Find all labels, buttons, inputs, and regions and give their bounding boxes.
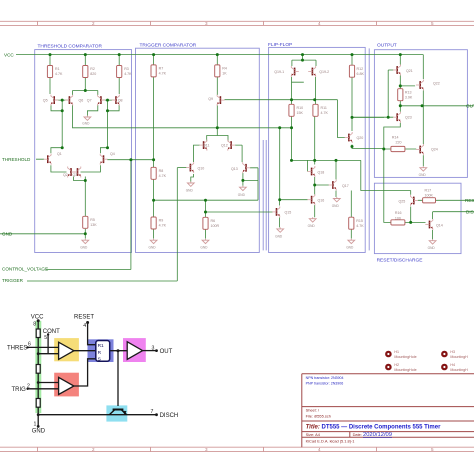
svg-text:OUTPUT: OUTPUT [377,43,397,49]
svg-text:5: 5 [44,335,47,341]
svg-text:Q11: Q11 [203,144,210,148]
svg-text:GND: GND [238,193,246,197]
svg-text:100: 100 [395,217,401,221]
svg-text:4: 4 [318,447,321,452]
svg-text:1: 1 [34,422,37,428]
svg-text:R3: R3 [124,67,129,71]
svg-text:2: 2 [92,21,95,26]
svg-text:220: 220 [396,141,402,145]
svg-text:4.7K: 4.7K [159,72,167,76]
svg-text:KiCad E.D.A. kicad (5.1.8)-1: KiCad E.D.A. kicad (5.1.8)-1 [306,439,355,444]
svg-text:Q14: Q14 [436,223,443,227]
svg-text:DIS: DIS [466,210,474,215]
svg-text:Q23: Q23 [405,115,412,119]
svg-text:4.7K: 4.7K [321,111,329,115]
svg-text:4.7K: 4.7K [124,72,132,76]
svg-text:3: 3 [152,346,155,352]
svg-text:Q7: Q7 [87,98,92,102]
svg-text:GND: GND [332,204,340,208]
svg-text:GND: GND [428,246,436,250]
svg-text:R16: R16 [395,211,402,215]
svg-text:3.9K: 3.9K [405,95,413,99]
svg-text:Q13: Q13 [231,167,238,171]
svg-text:4.7K: 4.7K [55,72,63,76]
svg-text:2: 2 [27,383,30,389]
svg-text:MountingH: MountingH [450,355,468,359]
svg-text:Q9: Q9 [208,97,213,101]
svg-text:7: 7 [151,409,154,415]
svg-text:4: 4 [83,323,86,329]
svg-text:R11: R11 [321,106,327,110]
svg-text:R17: R17 [425,188,432,192]
svg-text:VCC: VCC [4,52,14,57]
svg-text:THRESHOLD COMPARATOR: THRESHOLD COMPARATOR [38,44,103,50]
svg-text:Q24: Q24 [431,148,438,152]
svg-text:GND: GND [275,234,283,238]
svg-text:Q16: Q16 [318,199,325,203]
svg-text:GND: GND [32,429,46,435]
svg-text:THRES: THRES [7,346,27,352]
svg-text:OUT: OUT [160,349,173,355]
svg-text:15K: 15K [297,111,304,115]
svg-text:100R: 100R [211,224,220,228]
svg-text:NPN transistor: 2N3904: NPN transistor: 2N3904 [306,376,344,380]
svg-text:Q1: Q1 [57,152,62,156]
svg-text:R8: R8 [159,169,164,173]
svg-text:PNP transistor: 2N3906: PNP transistor: 2N3906 [306,381,344,385]
svg-text:6: 6 [28,342,31,348]
svg-text:GND: GND [308,224,316,228]
svg-text:GND: GND [200,246,208,250]
svg-text:Q2: Q2 [63,173,68,177]
svg-text:Q19-1: Q19-1 [274,70,284,74]
svg-text:R6: R6 [211,219,216,223]
svg-text:8: 8 [33,322,36,328]
svg-text:1K: 1K [222,72,227,76]
svg-text:TRIG: TRIG [12,387,27,393]
svg-text:TRIGGER: TRIGGER [2,278,24,283]
svg-text:Q12: Q12 [221,144,228,148]
svg-text:Q22: Q22 [433,82,440,86]
svg-text:TRIGGER COMPARATOR: TRIGGER COMPARATOR [140,43,197,49]
svg-text:RESET: RESET [74,315,94,321]
svg-text:3: 3 [205,21,208,26]
svg-text:R9: R9 [159,219,164,223]
svg-text:6.8K: 6.8K [357,72,365,76]
svg-text:GND: GND [419,173,427,177]
svg-text:Q19-2: Q19-2 [319,70,329,74]
svg-text:GND: GND [186,189,194,193]
svg-text:100K: 100K [425,193,434,197]
svg-text:R13: R13 [405,90,412,94]
svg-text:5: 5 [431,21,434,26]
svg-text:H1: H1 [394,350,399,354]
svg-text:Q17: Q17 [342,184,349,188]
svg-text:R1: R1 [55,67,60,71]
svg-text:Q15: Q15 [285,211,292,215]
svg-text:5: 5 [431,447,434,452]
svg-text:Q8: Q8 [118,98,123,102]
svg-text:GND: GND [2,232,13,237]
svg-text:Q21: Q21 [406,69,413,73]
svg-text:CONTROL_VOLTAGE: CONTROL_VOLTAGE [2,266,48,271]
svg-text:13K: 13K [90,223,97,227]
svg-text:File: dt555.sch: File: dt555.sch [306,413,331,418]
svg-text:Q3: Q3 [73,173,78,177]
svg-text:4.7K: 4.7K [159,174,167,178]
svg-text:R1: R1 [98,343,104,349]
svg-text:Q4: Q4 [110,152,115,156]
svg-text:R5: R5 [90,218,95,222]
svg-text:3: 3 [205,447,208,452]
svg-text:H2: H2 [394,363,399,367]
svg-text:OUT: OUT [466,104,474,109]
svg-text:Q10: Q10 [198,167,205,171]
svg-text:R7: R7 [159,67,164,71]
svg-text:4.7K: 4.7K [356,224,364,228]
svg-text:FLIP-FLOP: FLIP-FLOP [268,42,292,48]
svg-text:R14: R14 [392,136,399,140]
svg-text:R15: R15 [356,219,363,223]
svg-text:VCC: VCC [31,315,44,321]
svg-text:H3: H3 [450,350,455,354]
svg-text:4.7K: 4.7K [159,224,167,228]
svg-text:MountingHole: MountingHole [394,355,416,359]
svg-text:820: 820 [90,72,96,76]
svg-text:Sheet: /: Sheet: / [306,408,320,413]
svg-text:DISCH: DISCH [160,413,179,419]
svg-text:H4: H4 [450,363,455,367]
svg-text:Title: DT555 — Discrete Compon: Title: DT555 — Discrete Components 555 T… [306,425,441,431]
svg-text:GND: GND [149,246,157,250]
svg-text:Q25: Q25 [399,199,406,203]
svg-text:GND: GND [82,122,90,126]
svg-text:THRESHOLD: THRESHOLD [2,157,31,162]
svg-text:MountingH: MountingH [450,368,468,372]
svg-text:RES: RES [465,198,474,203]
svg-text:R12: R12 [357,67,364,71]
svg-text:MountingHole: MountingHole [394,368,416,372]
svg-text:R2: R2 [90,67,95,71]
svg-text:R10: R10 [297,106,304,110]
svg-text:GND: GND [80,246,88,250]
svg-text:RESET/DISCHARGE: RESET/DISCHARGE [377,258,423,264]
svg-text:S: S [98,356,101,362]
svg-text:2: 2 [92,447,95,452]
svg-text:GND: GND [346,246,354,250]
svg-text:Q20: Q20 [357,136,364,140]
svg-text:Size: A4: Size: A4 [306,432,321,437]
svg-text:Q18: Q18 [318,170,325,174]
svg-text:Q5: Q5 [43,98,48,102]
svg-text:4: 4 [318,21,321,26]
svg-text:R4: R4 [222,67,227,71]
svg-text:R: R [98,350,102,356]
svg-text:Q6: Q6 [79,98,84,102]
